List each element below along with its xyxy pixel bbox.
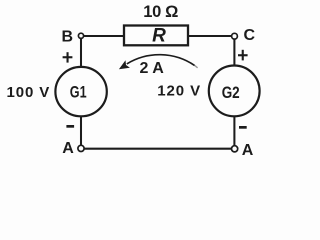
bottom wire: [84, 148, 232, 150]
current arrow head: [119, 60, 130, 69]
wire: node A left up to G1: [80, 117, 82, 146]
resistor R1 body: [124, 26, 188, 46]
node C: [232, 33, 238, 39]
resistor label R: [152, 26, 166, 47]
current arrow arc: [127, 55, 198, 68]
voltage label 100 V: [7, 84, 51, 101]
svg-text:2 A: 2 A: [140, 60, 165, 77]
node A right label: [242, 142, 254, 159]
node C label: [244, 27, 256, 44]
current label 2 A: [140, 60, 165, 77]
generator G2: [209, 66, 260, 117]
svg-text:G2: G2: [222, 83, 240, 102]
wire: resistor right to node C: [188, 35, 232, 37]
wire: node B down to G1: [80, 38, 82, 67]
svg-text:10 Ω: 10 Ω: [143, 3, 178, 21]
node B: [78, 33, 83, 38]
svg-text:G1: G1: [70, 83, 87, 102]
svg-text:R: R: [152, 26, 166, 47]
node A left: [78, 145, 84, 151]
node A right: [232, 146, 238, 152]
node B label: [62, 29, 74, 46]
G2 plus polarity: [238, 50, 248, 61]
G1 plus polarity: [63, 52, 73, 62]
wire: node C down to G2: [233, 39, 235, 66]
generator G1: [55, 67, 106, 116]
svg-text:C: C: [244, 27, 256, 44]
voltage label 120 V: [157, 83, 201, 100]
svg-text:A: A: [62, 140, 74, 157]
wire: G2 down to node A right: [233, 116, 235, 146]
resistor value 10 Ω: [143, 3, 178, 21]
svg-text:120 V: 120 V: [157, 83, 201, 100]
wire: node B to resistor left: [84, 35, 124, 37]
node A left label: [62, 140, 74, 157]
svg-text:100 V: 100 V: [7, 84, 51, 101]
G2 minus polarity: [239, 126, 247, 129]
G1 minus polarity: [66, 125, 74, 128]
svg-text:A: A: [242, 142, 254, 159]
svg-text:B: B: [62, 29, 74, 46]
